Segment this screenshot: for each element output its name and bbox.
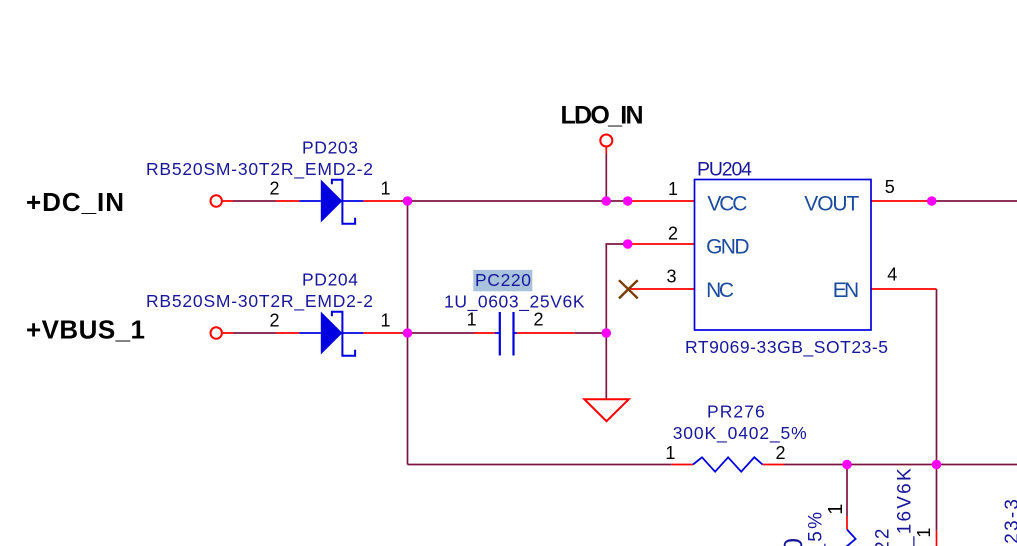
svg-text:+VBUS_1: +VBUS_1	[26, 315, 145, 345]
svg-text:2: 2	[270, 311, 280, 331]
svg-text:GND: GND	[706, 236, 749, 259]
svg-text:1: 1	[825, 504, 847, 515]
svg-text:1: 1	[665, 443, 675, 463]
svg-text:RB520SM-30T2R_EMD2-2: RB520SM-30T2R_EMD2-2	[146, 159, 373, 180]
svg-text:LDO_IN: LDO_IN	[561, 102, 644, 130]
svg-text:_16V6K: _16V6K	[895, 466, 916, 546]
svg-text:2: 2	[270, 179, 280, 199]
svg-text:VCC: VCC	[707, 193, 747, 216]
svg-text:1: 1	[467, 309, 477, 329]
svg-text:2: 2	[534, 309, 544, 329]
svg-text:1: 1	[668, 179, 678, 199]
svg-text:RB520SM-30T2R_EMD2-2: RB520SM-30T2R_EMD2-2	[146, 291, 373, 312]
svg-text:1: 1	[914, 528, 934, 538]
svg-text:1: 1	[381, 179, 391, 199]
svg-text:EN: EN	[833, 279, 859, 302]
svg-text:VOUT: VOUT	[804, 193, 859, 216]
svg-text:T23-3: T23-3	[1002, 497, 1017, 546]
svg-text:300K_0402_5%: 300K_0402_5%	[673, 423, 807, 444]
svg-text:NC: NC	[706, 279, 734, 302]
svg-text:3: 3	[667, 267, 677, 287]
svg-text:PU204: PU204	[697, 159, 752, 181]
svg-text:+DC_IN: +DC_IN	[26, 187, 124, 217]
svg-text:2: 2	[776, 443, 786, 463]
svg-text:PR276: PR276	[707, 401, 765, 421]
svg-text:PC222: PC222	[873, 526, 894, 546]
svg-text:1U_0603_25V6K: 1U_0603_25V6K	[444, 292, 585, 313]
svg-text:RT9069-33GB_SOT23-5: RT9069-33GB_SOT23-5	[685, 337, 888, 358]
svg-text:0: 0	[778, 538, 808, 546]
svg-text:PD203: PD203	[302, 138, 358, 158]
svg-text:PD204: PD204	[302, 270, 358, 290]
svg-text:5: 5	[885, 177, 895, 197]
svg-text:4: 4	[887, 265, 897, 285]
svg-text:PC220: PC220	[475, 270, 531, 290]
svg-text:1: 1	[381, 311, 391, 331]
svg-text:02_5%: 02_5%	[806, 510, 827, 546]
svg-text:2: 2	[668, 224, 678, 244]
